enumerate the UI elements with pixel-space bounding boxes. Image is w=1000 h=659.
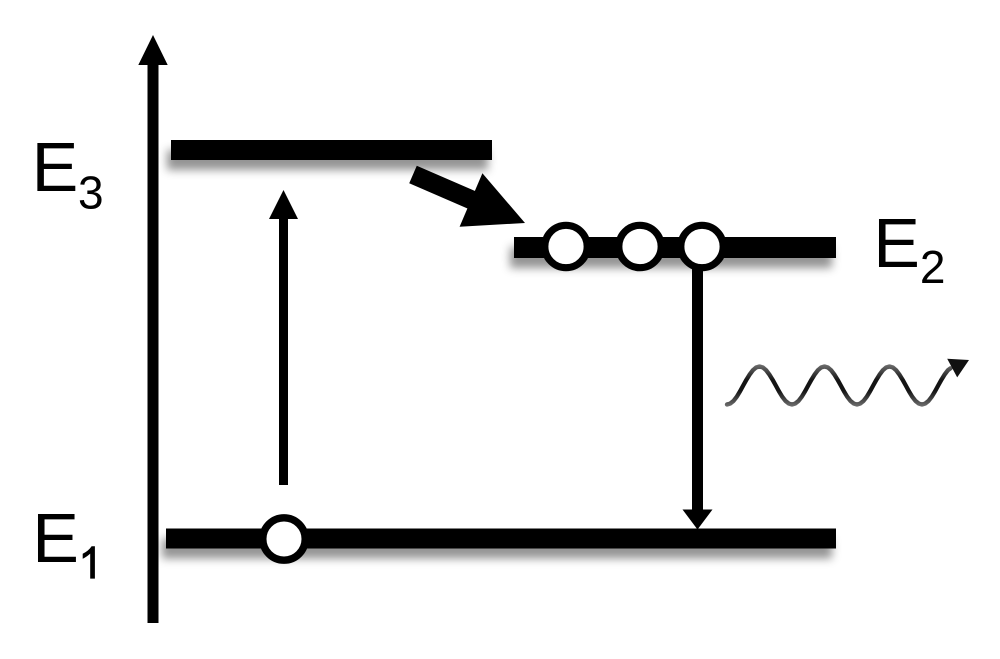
level bar E1 [166, 529, 836, 549]
lasing transition arrow (down from E2 to E1) [683, 268, 713, 530]
electron circle 1 on E2 [545, 225, 587, 267]
svg-text:E: E [873, 204, 920, 282]
pump arrow (thin up arrow E1 to E3) [269, 190, 298, 485]
electron circle on E1 [263, 518, 305, 560]
level bar E3 [171, 140, 492, 160]
emitted photon wavy arrow [727, 359, 969, 405]
svg-text:E: E [32, 128, 79, 206]
electron circle 3 on E2 [681, 225, 723, 267]
label E3 [32, 128, 104, 219]
energy axis (vertical arrow) [138, 35, 167, 623]
svg-text:E: E [32, 499, 79, 577]
svg-text:3: 3 [78, 167, 104, 219]
electron circle 2 on E2 [619, 225, 661, 267]
label E2 [873, 204, 945, 293]
fast decay arrow (thick diagonal E3 to E2) [413, 173, 525, 226]
svg-text:2: 2 [920, 241, 946, 293]
level bar E2 [514, 237, 836, 258]
label E1 [32, 499, 95, 579]
